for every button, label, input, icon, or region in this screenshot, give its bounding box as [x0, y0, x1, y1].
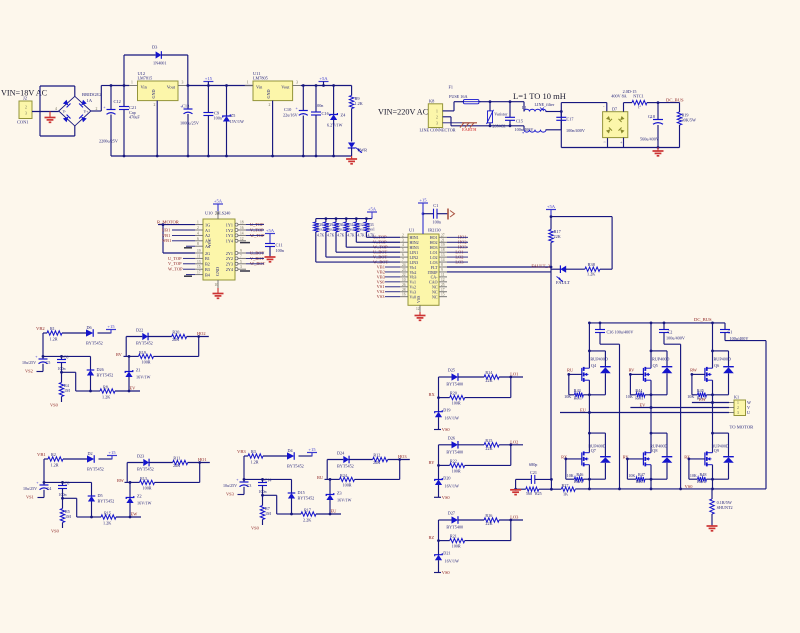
svg-text:SHUNT2: SHUNT2: [717, 505, 733, 510]
resistor SHUNT2 0.1R/5W: [711, 489, 713, 499]
svg-text:3: 3: [296, 81, 298, 85]
svg-text:D7: D7: [612, 107, 617, 112]
ic U10 74LS240: [203, 219, 235, 280]
capacitor C10 22u/16V: [302, 86, 304, 111]
wire DC bus right side: [765, 341, 767, 489]
svg-text:2: 2: [269, 103, 271, 107]
capacitor C18 560u/400V: [657, 103, 659, 119]
diode D25 BYT5400: [439, 376, 452, 378]
svg-text:RV: RV: [116, 352, 123, 357]
svg-text:6: 6: [402, 253, 404, 257]
nc tick 1Y4: [240, 242, 250, 244]
svg-text:1.2R: 1.2R: [251, 460, 259, 465]
svg-text:DC_BUS: DC_BUS: [694, 317, 712, 322]
svg-text:C17: C17: [567, 117, 574, 122]
svg-text:EV: EV: [130, 386, 137, 391]
svg-text:1000u/25V: 1000u/25V: [180, 121, 199, 126]
svg-text:VB1: VB1: [162, 233, 170, 238]
capacitor C12 2200u/25V: [110, 86, 112, 110]
svg-text:RZ: RZ: [429, 535, 435, 540]
svg-text:R13: R13: [140, 476, 147, 481]
svg-text:2G: 2G: [205, 251, 210, 256]
svg-text:J2: J2: [23, 96, 27, 101]
svg-text:TO MOTOR: TO MOTOR: [730, 425, 755, 430]
resistor R4 1M: [61, 372, 63, 382]
svg-text:1.2K: 1.2K: [355, 101, 363, 106]
svg-text:R24: R24: [340, 473, 348, 478]
regulator U11 LM7805: [253, 81, 293, 101]
svg-text:EU: EU: [580, 407, 587, 412]
resistor R16 22K: [458, 519, 484, 521]
svg-text:B1: B1: [205, 256, 210, 261]
svg-text:R45: R45: [697, 388, 704, 393]
varistor RV 20N431: [489, 102, 491, 111]
wire FAULT row: [447, 266, 551, 268]
svg-text:R30: R30: [337, 223, 343, 227]
svg-text:Res1: Res1: [327, 228, 334, 232]
svg-text:Res1: Res1: [697, 479, 705, 484]
svg-text:C1: C1: [728, 330, 733, 335]
svg-text:1Y2: 1Y2: [226, 228, 233, 233]
svg-text:2Y3: 2Y3: [226, 262, 233, 267]
svg-text:4: 4: [55, 107, 57, 111]
svg-text:R2: R2: [51, 452, 56, 457]
resistor R17 1.2K: [301, 512, 316, 516]
svg-text:+15: +15: [308, 447, 316, 452]
svg-text:BYT5452: BYT5452: [98, 499, 115, 504]
svg-text:1M: 1M: [64, 388, 70, 393]
svg-text:C6: C6: [64, 355, 69, 360]
svg-text:W_TOP: W_TOP: [168, 267, 183, 272]
wire bus U12 out: [186, 85, 253, 87]
wire vb node row: [244, 478, 292, 480]
wire phase W row: [692, 402, 729, 404]
svg-text:4.7K: 4.7K: [337, 234, 344, 238]
svg-text:VS0: VS0: [442, 570, 451, 575]
svg-text:D15: D15: [298, 490, 305, 495]
ground at J2: [49, 112, 51, 118]
svg-text:D26: D26: [97, 367, 104, 372]
svg-text:D19: D19: [443, 408, 450, 413]
svg-text:8: 8: [197, 242, 199, 246]
capacitor C13 1000u/25V: [187, 86, 189, 109]
svg-text:1.2K: 1.2K: [103, 521, 111, 526]
svg-text:VS2: VS2: [25, 369, 33, 374]
svg-text:Q8: Q8: [652, 448, 657, 453]
transistor Q6 RUP400D: [713, 350, 729, 352]
svg-text:R16: R16: [485, 513, 492, 518]
svg-text:12: 12: [441, 278, 445, 282]
svg-text:R33: R33: [368, 223, 374, 227]
svg-text:D4: D4: [288, 448, 294, 453]
earth symbol EARTH: [443, 122, 470, 124]
wire phase V row: [630, 407, 729, 409]
svg-text:25: 25: [441, 283, 445, 287]
svg-text:22K: 22K: [485, 521, 492, 526]
svg-text:100n/400V: 100n/400V: [566, 128, 585, 133]
resistor R13 100R: [130, 481, 140, 483]
svg-text:16V/1W: 16V/1W: [445, 559, 459, 564]
pin U10 VCC: [217, 211, 219, 219]
svg-text:R44: R44: [635, 388, 643, 393]
wire c2 to bottom row: [63, 497, 77, 499]
capacitor C3 10u/25V: [243, 456, 245, 482]
svg-text:C3: C3: [247, 483, 252, 488]
svg-text:100R: 100R: [142, 360, 151, 365]
svg-text:EW: EW: [699, 397, 707, 402]
svg-text:BYT5452: BYT5452: [287, 464, 304, 469]
power +5A fault: [546, 209, 556, 211]
diode D2 BYT5452: [87, 455, 94, 462]
svg-text:U_TOP: U_TOP: [168, 256, 182, 261]
diode D26 BYT5452 vertical: [90, 356, 92, 370]
svg-text:HO3: HO3: [398, 454, 407, 459]
svg-text:F1: F1: [449, 85, 453, 90]
svg-text:Res1: Res1: [636, 479, 644, 484]
resistor R7 1M: [262, 495, 264, 505]
svg-text:100R: 100R: [143, 486, 152, 491]
svg-text:LINE_filter: LINE_filter: [535, 102, 555, 107]
svg-text:R12: R12: [373, 453, 380, 458]
svg-text:C12: C12: [114, 99, 121, 104]
svg-text:1.2K: 1.2K: [102, 395, 110, 400]
svg-text:2: 2: [154, 103, 156, 107]
wire L1 bottom: [490, 125, 524, 127]
wire ho loop: [399, 460, 401, 480]
resistor R12 22K: [349, 459, 373, 461]
svg-text:Res1: Res1: [574, 396, 582, 401]
wire C2 return: [680, 344, 682, 489]
svg-text:C36: C36: [607, 330, 614, 335]
resistor R2 1.2R: [48, 457, 63, 461]
svg-text:A3: A3: [205, 239, 210, 244]
wire bridge input loop: [39, 86, 41, 136]
transistor Q5 RUP400D: [651, 350, 667, 352]
wire ho loop: [198, 337, 200, 357]
svg-text:9: 9: [240, 249, 242, 253]
svg-text:22K: 22K: [485, 446, 492, 451]
svg-text:VB3: VB3: [237, 449, 246, 454]
svg-text:1K: 1K: [563, 492, 568, 497]
resistor R22 100R: [439, 464, 450, 466]
svg-text:3: 3: [182, 81, 184, 85]
resistor R15 1.2K: [101, 515, 116, 519]
svg-text:100n: 100n: [58, 366, 66, 371]
svg-text:Vout: Vout: [281, 84, 290, 89]
diode freewheel Q6: [728, 351, 730, 367]
svg-text:3: 3: [25, 112, 27, 116]
wire emitter Q5: [650, 380, 652, 407]
svg-text:LO3: LO3: [510, 515, 519, 520]
power +5A psu: [319, 81, 329, 83]
svg-text:+5A: +5A: [368, 207, 377, 212]
wire bottom row EW: [92, 516, 102, 518]
svg-text:100u/400V: 100u/400V: [730, 336, 749, 341]
svg-text:1: 1: [197, 221, 199, 225]
zener Z5 15V/1W: [226, 86, 228, 117]
transistor Q7 RUP400D bottom: [589, 432, 605, 434]
svg-text:4.7K: 4.7K: [317, 234, 324, 238]
svg-text:+5A: +5A: [319, 76, 328, 81]
power +5A pullups: [367, 211, 377, 213]
svg-text:2: 2: [436, 115, 438, 119]
capacitor C15 100n/400V: [509, 102, 511, 117]
resistor R25 560: [516, 488, 526, 490]
svg-text:1G: 1G: [205, 222, 210, 227]
svg-text:2: 2: [402, 233, 404, 237]
svg-text:CON1: CON1: [17, 120, 28, 125]
diode freewheel Q9: [728, 433, 730, 456]
resistor network R28-R33 4.7K pullups: [316, 218, 367, 220]
svg-text:BRIDGE2: BRIDGE2: [82, 92, 102, 97]
svg-text:C10: C10: [284, 107, 292, 112]
ground shunt: [707, 525, 718, 527]
svg-text:VSS: VSS: [416, 296, 421, 303]
svg-text:EV: EV: [640, 402, 647, 407]
capacitor C5 10u/25V: [42, 333, 44, 359]
svg-text:BYT5452: BYT5452: [87, 467, 104, 472]
svg-text:B2: B2: [205, 262, 210, 267]
resistor R17 22K: [550, 217, 552, 230]
svg-text:VS0: VS0: [251, 526, 260, 531]
svg-text:10K: 10K: [567, 473, 574, 478]
svg-text:1: 1: [436, 109, 438, 113]
LED PWR: [348, 143, 355, 149]
svg-text:Q4: Q4: [591, 363, 597, 368]
svg-text:EARTH: EARTH: [462, 127, 477, 132]
power +15 bootstrap: [307, 452, 317, 454]
svg-text:6.2V/1W: 6.2V/1W: [327, 123, 343, 128]
svg-text:9: 9: [441, 268, 443, 272]
resistor R11 22K: [149, 462, 173, 464]
svg-text:27: 27: [441, 233, 445, 237]
diode D26 BYT5400: [439, 444, 452, 446]
svg-text:D20: D20: [443, 475, 450, 480]
resistor R15 22K: [458, 444, 484, 446]
svg-text:18: 18: [441, 248, 445, 252]
svg-text:28: 28: [402, 288, 406, 292]
wire phase U row: [560, 412, 729, 414]
wire phase drop Q7: [588, 413, 590, 453]
svg-text:4: 4: [402, 243, 404, 247]
svg-text:BYT5452: BYT5452: [97, 373, 114, 378]
svg-text:2: 2: [197, 226, 199, 230]
svg-text:VS3: VS3: [377, 294, 386, 299]
svg-text:Res1: Res1: [635, 396, 643, 401]
resistor R19 30K/5W: [679, 103, 681, 112]
diode D23 BYT5452 to HO1: [127, 462, 143, 464]
svg-text:17: 17: [197, 271, 201, 275]
wire bus drop Q4: [588, 323, 590, 368]
svg-text:C13: C13: [182, 104, 190, 109]
ground DC input: [657, 148, 659, 151]
svg-text:+15: +15: [108, 450, 116, 455]
svg-text:400V 8A: 400V 8A: [611, 94, 626, 99]
svg-text:Q5: Q5: [653, 363, 658, 368]
svg-text:LO1: LO1: [510, 372, 518, 377]
svg-text:V_TOP: V_TOP: [168, 261, 182, 266]
svg-text:R47: R47: [638, 472, 645, 477]
wire VB3 top row: [244, 455, 248, 457]
resistor R27 1K: [551, 488, 561, 490]
svg-text:NC: NC: [432, 295, 438, 300]
svg-text:BYT5452: BYT5452: [137, 467, 154, 472]
pins U1 right: [439, 236, 447, 238]
svg-text:BYT5452: BYT5452: [86, 341, 103, 346]
svg-text:U10: U10: [205, 211, 213, 216]
svg-text:560u/400V: 560u/400V: [640, 137, 659, 142]
svg-text:BYT5400: BYT5400: [446, 382, 463, 387]
resistor R20 22K: [148, 336, 172, 338]
svg-text:100n: 100n: [59, 492, 67, 497]
svg-text:16V/1W: 16V/1W: [337, 498, 351, 503]
resistor R3 1.2R: [248, 454, 263, 458]
capacitor C6 100n: [61, 356, 63, 359]
svg-text:Z2: Z2: [137, 494, 142, 499]
diode D27 BYT5400: [439, 519, 452, 521]
svg-text:15: 15: [197, 265, 201, 269]
zener D20 16V/1W: [438, 445, 440, 480]
svg-text:+15: +15: [107, 324, 115, 329]
svg-text:BYT5452: BYT5452: [298, 496, 315, 501]
svg-text:BYT5452: BYT5452: [136, 341, 153, 346]
svg-text:+5A: +5A: [547, 204, 556, 209]
wire C17 to D7: [561, 102, 607, 104]
svg-text:680p: 680p: [529, 462, 537, 467]
zener Z3 16V/1W: [329, 479, 331, 494]
svg-text:+15: +15: [419, 198, 427, 203]
svg-text:+15: +15: [205, 76, 213, 81]
wire bottom row EU: [292, 513, 302, 515]
wire vb node row: [43, 355, 91, 357]
svg-text:1: 1: [131, 81, 133, 85]
resistor R1 1.2R: [47, 331, 62, 335]
zener Z1 16V/1W: [128, 356, 130, 371]
svg-text:FAULT_2: FAULT_2: [531, 264, 550, 269]
svg-text:R43: R43: [574, 388, 581, 393]
wire +15 top bus: [111, 85, 129, 87]
svg-text:RV: RV: [629, 368, 636, 373]
capacitor C8 100n: [62, 482, 64, 485]
svg-text:16V/1W: 16V/1W: [445, 483, 459, 488]
svg-text:10: 10: [215, 283, 219, 287]
svg-text:HO1: HO1: [198, 457, 207, 462]
svg-text:BYT5452: BYT5452: [337, 464, 354, 469]
pin U10 GND: [217, 280, 219, 288]
svg-text:1: 1: [737, 401, 739, 405]
capacitor C16 100n: [315, 86, 317, 113]
wire emitter Q9 to shunt bus: [712, 465, 714, 489]
svg-text:100R: 100R: [452, 401, 461, 406]
svg-text:R38: R38: [588, 262, 596, 267]
svg-text:100R: 100R: [452, 544, 461, 549]
wire VB1 top row: [44, 458, 48, 460]
svg-text:1M: 1M: [65, 514, 71, 519]
svg-text:C5: C5: [46, 360, 51, 365]
svg-text:RU: RU: [317, 475, 324, 480]
svg-text:Vs0: Vs0: [410, 295, 416, 300]
svg-text:1N4001: 1N4001: [153, 61, 167, 66]
resistor R43 10K Res1 gate: [568, 374, 570, 394]
svg-text:560: 560: [526, 491, 532, 496]
wire emitter Q4: [588, 380, 590, 412]
svg-text:2: 2: [96, 107, 98, 111]
svg-text:3: 3: [737, 411, 739, 415]
diode freewheel Q4: [604, 351, 606, 367]
svg-text:19: 19: [197, 249, 201, 253]
svg-text:C18: C18: [648, 114, 655, 119]
svg-text:LM7815: LM7815: [138, 76, 153, 81]
transistor Q9 RUP400D bottom: [713, 432, 729, 434]
power +15 bootstrap: [106, 329, 116, 331]
capacitor C1 100u/400V inverter: [724, 323, 726, 329]
svg-text:C8: C8: [65, 481, 70, 486]
wire phase drop Q9: [712, 403, 714, 453]
svg-text:VB2: VB2: [36, 326, 45, 331]
svg-text:R11: R11: [173, 456, 180, 461]
svg-text:Res1: Res1: [347, 228, 354, 232]
svg-text:LINE CONNECTOR: LINE CONNECTOR: [420, 128, 456, 133]
svg-text:RU: RU: [567, 368, 574, 373]
svg-text:10K: 10K: [626, 394, 633, 399]
diode freewheel Q8: [666, 433, 668, 456]
wire ITRIP node: [550, 479, 552, 490]
capacitor C4 10u/25V: [43, 459, 45, 485]
wire bottom bus psu: [111, 155, 352, 157]
svg-text:100R: 100R: [343, 483, 352, 488]
svg-text:16: 16: [402, 293, 406, 297]
diode D6 BYT5452: [86, 329, 93, 336]
svg-text:19: 19: [441, 243, 445, 247]
ground U10: [217, 288, 219, 293]
power +15 bootstrap: [107, 455, 117, 457]
svg-text:1Y3: 1Y3: [226, 233, 233, 238]
svg-text:+5A: +5A: [266, 228, 275, 233]
svg-text:2: 2: [737, 406, 739, 410]
wire +5 bus: [301, 85, 352, 87]
svg-text:11: 11: [441, 273, 445, 277]
svg-text:100n: 100n: [276, 248, 285, 253]
wire DC bus node: [658, 102, 680, 104]
wire C36 return: [619, 344, 621, 489]
svg-text:10u/25V: 10u/25V: [23, 486, 37, 491]
svg-text:R21: R21: [450, 534, 457, 539]
svg-text:Q7: Q7: [591, 448, 596, 453]
svg-text:100n: 100n: [433, 220, 442, 225]
svg-text:R15: R15: [485, 438, 492, 443]
svg-text:4.7K: 4.7K: [347, 234, 354, 238]
ground psu bottom: [351, 156, 353, 159]
svg-text:WB1: WB1: [162, 238, 171, 243]
capacitor C14 100n: [262, 479, 264, 482]
svg-text:16V/1W: 16V/1W: [136, 375, 150, 380]
svg-text:A4: A4: [205, 244, 211, 249]
svg-text:BYT5400: BYT5400: [446, 449, 463, 454]
svg-text:LM7805: LM7805: [253, 76, 268, 81]
svg-text:D21: D21: [443, 551, 450, 556]
resistor R8 1.2K: [100, 389, 115, 393]
bridge rectifier BRIDGE2 1A: [59, 96, 91, 126]
diode D3 1N4001: [123, 55, 125, 86]
wire DC bus top: [589, 322, 725, 324]
svg-text:R_MOTOR: R_MOTOR: [157, 219, 180, 224]
diode D15 BYT5452 vertical: [291, 479, 293, 493]
svg-text:BYT5400: BYT5400: [446, 525, 463, 530]
ic U1 IR2130: [408, 234, 439, 305]
svg-text:100u/400V: 100u/400V: [615, 330, 634, 335]
svg-text:10K: 10K: [690, 473, 697, 478]
svg-text:R19: R19: [139, 350, 146, 355]
